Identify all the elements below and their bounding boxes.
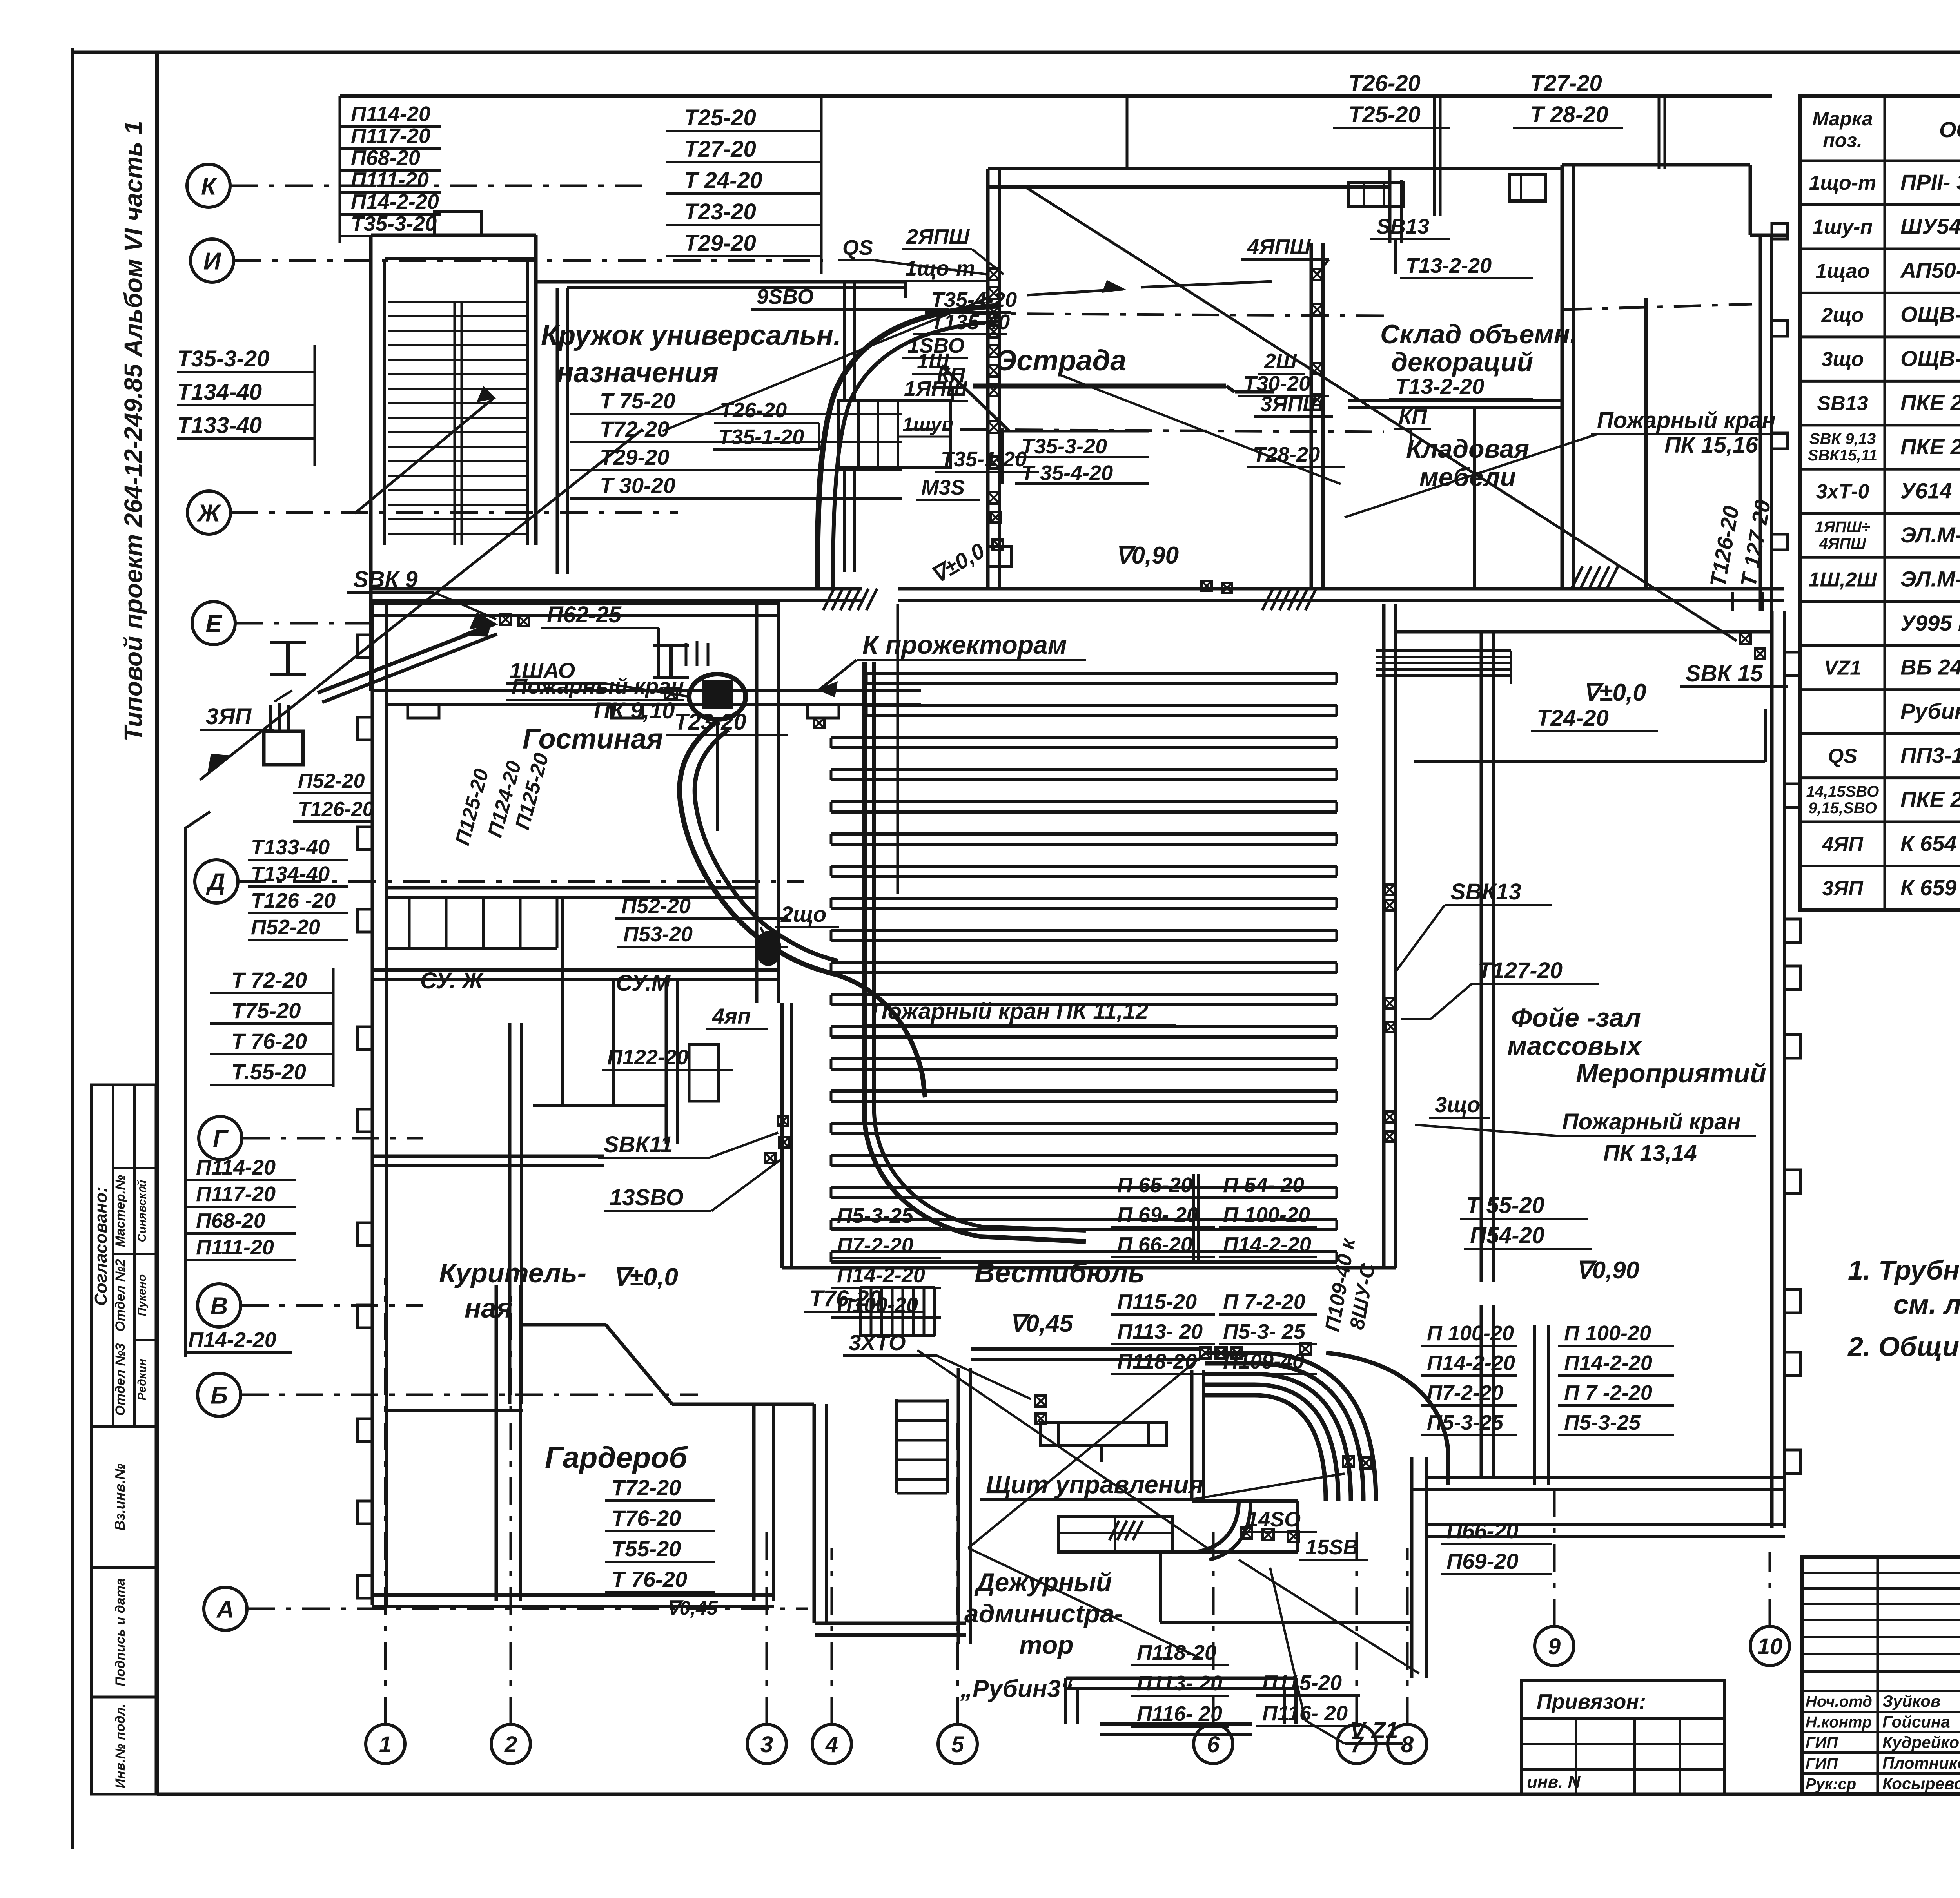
svg-text:Т26-20: Т26-20 [1348,71,1421,96]
svg-text:Т25-20: Т25-20 [1348,102,1421,127]
svg-text:П 100-20: П 100-20 [1223,1203,1310,1227]
svg-text:Т25-20: Т25-20 [684,105,756,131]
svg-text:Т134-40: Т134-40 [251,862,330,886]
corridor wall above administrator area [971,1347,1200,1351]
axis 4 circle [812,1724,851,1764]
foyer bottom wall [1427,1476,1785,1479]
hall right wall [1382,604,1386,1268]
svg-text:1шу-п: 1шу-п [1813,216,1873,239]
svg-text:3ЯПШ: 3ЯПШ [1260,392,1324,416]
stage apron thick edge line [973,384,1226,389]
axis 10 dash-dot line [1769,1552,1771,1626]
svg-text:Т26-20: Т26-20 [720,399,787,422]
svg-text:Фойе -зал: Фойе -зал [1511,1003,1641,1033]
administrator area right wall [1410,1457,1414,1678]
svg-text:3що: 3що [1435,1092,1480,1117]
svg-text:см. лист-24,25.: см. лист-24,25. [1893,1289,1960,1320]
title block signature rows [1802,1690,1960,1692]
knot outer sweep to foyer [1326,1353,1448,1485]
svg-text:П53-20: П53-20 [623,923,693,946]
svg-text:Эстрада: Эстрада [996,344,1126,377]
svg-text:Т 30-20: Т 30-20 [600,473,675,498]
svg-text:П113- 20: П113- 20 [1137,1671,1222,1695]
svg-text:Т133-40: Т133-40 [177,413,262,438]
svg-text:Зуйков: Зуйков [1882,1692,1940,1710]
stage front equipment symbols [988,268,1000,280]
svg-text:П 66-20: П 66-20 [1117,1233,1192,1256]
кладовая inner wall [1473,408,1476,589]
svg-text:П113- 20: П113- 20 [1117,1320,1203,1343]
svg-text:Синявскიй: Синявскიй [136,1180,149,1242]
conduit vertical through hall [897,604,899,894]
svg-text:П 7 -2-20: П 7 -2-20 [1564,1381,1652,1405]
svg-text:ПКЕ 212-2: ПКЕ 212-2 [1900,390,1960,415]
svg-text:П117-20: П117-20 [196,1182,276,1206]
stack vertical under Т26/Т25 [1433,96,1436,216]
svg-text:Т 76-20: Т 76-20 [612,1567,687,1592]
svg-text:1шуп: 1шуп [902,413,954,435]
svg-text:Т35-3-20: Т35-3-20 [351,212,437,236]
svg-text:VZ1: VZ1 [1824,656,1861,679]
svg-text:Т13-2-20: Т13-2-20 [1406,254,1492,277]
axis 6 dash-dot line [1212,1528,1215,1724]
svg-text:Ноч.отд: Ноч.отд [1806,1693,1872,1710]
equipment склад top [1222,583,1232,593]
axis Е circle [192,602,235,645]
title block signature column lines [1877,1557,1879,1794]
svg-text:П 65-20: П 65-20 [1117,1173,1192,1197]
svg-text:П52-20: П52-20 [298,770,365,792]
svg-text:Т30-20: Т30-20 [1243,372,1310,395]
counter rectangle 2 in vestibule [1058,1517,1172,1552]
svg-text:Т35-4-20: Т35-4-20 [931,288,1017,312]
svg-text:Т72-20: Т72-20 [612,1475,681,1500]
svg-text:Т29-20: Т29-20 [684,230,756,256]
svg-text:П69-20: П69-20 [1446,1549,1519,1574]
svg-text:3ХТО: 3ХТО [849,1330,906,1355]
drawing frame border [155,52,159,1794]
svg-text:декораций: декораций [1391,347,1533,377]
svg-text:П52-20: П52-20 [621,894,691,918]
axis 2 circle [491,1724,530,1764]
svg-text:∇0,90: ∇0,90 [1576,1257,1639,1284]
axis 3 circle [747,1724,786,1764]
left stack collector line [314,345,316,466]
cable knot bundle bottom centre [1205,1353,1376,1501]
axis 5 circle [938,1724,977,1764]
left callout collector line [185,812,210,1357]
svg-text:ОЩВ-6: ОЩВ-6 [1900,346,1960,371]
svg-text:В: В [211,1293,228,1320]
svg-text:ГИП: ГИП [1806,1734,1838,1751]
svg-text:П66-20: П66-20 [1446,1518,1519,1543]
svg-text:Т133-40: Т133-40 [251,836,330,859]
svg-text:3ЯП: 3ЯП [1822,877,1864,900]
axis Б circle [198,1373,241,1416]
svg-text:инв. N: инв. N [1527,1773,1581,1792]
svg-text:П116- 20: П116- 20 [1262,1702,1348,1725]
svg-text:Г: Г [213,1125,229,1152]
svg-text:П114-20: П114-20 [351,102,430,126]
svg-text:SВК15,11: SВК15,11 [1808,447,1877,464]
foyer top wall [1396,630,1772,634]
svg-text:ВБ 24/3: ВБ 24/3 [1900,654,1960,679]
hatch marks on cross wall [823,589,834,610]
stair entrance bump [434,212,481,235]
svg-text:П111-20: П111-20 [351,168,429,192]
cloakroom (Гардероб) walls [495,1285,498,1601]
stair treads [388,301,527,303]
vestibule entrance wall [815,1622,966,1625]
svg-text:поз.: поз. [1823,129,1862,151]
svg-text:П68-20: П68-20 [351,146,420,170]
svg-text:ШУ5402-03В2Б: ШУ5402-03В2Б [1900,214,1960,239]
svg-text:Кудрейко: Кудрейко [1882,1733,1959,1751]
foyer right facade [1770,611,1774,1528]
hall left aisle cable [864,662,1086,1242]
svg-text:П118-20: П118-20 [1137,1641,1216,1664]
svg-text:Гостиная: Гостиная [523,723,663,755]
administrator room wall [1190,1370,1194,1501]
knot equipment marks [1200,1347,1211,1358]
toilets walls axis Г [372,968,778,972]
svg-text:Гойсина: Гойсина [1882,1713,1950,1731]
axis В circle [198,1284,241,1327]
axis 1 circle [366,1724,405,1764]
svg-text:Отдел №3: Отдел №3 [113,1343,128,1416]
svg-text:Т 76-20: Т 76-20 [231,1029,307,1053]
svg-text:Т 35-4-20: Т 35-4-20 [1021,461,1113,485]
svg-text:SВК11: SВК11 [604,1132,673,1157]
stage axis dash-dot lines [972,314,1384,316]
svg-text:Кладовая: Кладовая [1406,434,1529,463]
long leader lines right of Т35-4-20 [1027,289,1123,295]
svg-text:3що: 3що [1821,348,1864,371]
svg-text:ная: ная [465,1293,512,1323]
axis 10 circle [1750,1626,1789,1666]
svg-text:∇0,45: ∇0,45 [1009,1310,1074,1337]
svg-text:Согласовано:: Согласовано: [91,1187,111,1306]
svg-text:Рубин3: Рубин3 [1900,699,1960,723]
auditorium seat rows [866,672,1337,675]
svg-text:ГИП: ГИП [1806,1755,1838,1772]
stack vertical under Т27/Т28 right [1658,96,1661,169]
svg-text:3ЯП: 3ЯП [206,704,252,729]
svg-text:ПКЕ 222-1: ПКЕ 222-1 [1900,434,1960,459]
stair block right wall [526,259,529,545]
axis А dash-dot line [247,1608,808,1610]
svg-text:У614: У614 [1900,479,1952,503]
svg-text:П7-2-20: П7-2-20 [837,1234,913,1257]
svg-text:Т55-20: Т55-20 [612,1536,681,1561]
svg-text:П109-40: П109-40 [1223,1350,1304,1373]
equipment on axis И stage side [814,718,824,728]
axis 7 dash-dot line [1356,1528,1358,1724]
stair arrow diagonal [355,398,494,513]
axis 8 dash-dot line [1406,1548,1409,1724]
stairwell outer walls top-left [371,234,536,237]
svg-text:массовых: массовых [1507,1031,1642,1061]
section mark I centre [669,646,673,677]
left stamp table [91,1085,156,1794]
svg-text:4ЯПШ: 4ЯПШ [1247,235,1311,259]
svg-text:Гардероб: Гардероб [545,1441,688,1474]
lower right wall band [1427,1523,1785,1526]
foyer riser pipes vertical [1533,1325,1536,1485]
svg-text:П5-3-25: П5-3-25 [1564,1411,1641,1434]
svg-text:П5-3- 25: П5-3- 25 [1223,1320,1306,1343]
svg-text:Мероприятий: Мероприятий [1576,1059,1766,1088]
stage front wall [986,169,990,589]
svg-text:Косырево: Косырево [1882,1774,1960,1793]
svg-text:SВК13: SВК13 [1450,879,1521,905]
svg-text:9: 9 [1548,1634,1561,1659]
кладовая east inner wall [1644,298,1648,589]
svg-text:П7-2-20: П7-2-20 [1427,1381,1503,1405]
smoking room walls [372,1155,604,1158]
wing wall pilasters [408,704,439,718]
axis 4 dash-dot line [831,1548,833,1724]
svg-text:П14-2-20: П14-2-20 [1223,1233,1311,1256]
svg-text:К прожекторам: К прожекторам [862,630,1067,659]
svg-text:Т76-20: Т76-20 [612,1506,681,1530]
axis И circle [191,239,234,282]
right facade upper [1759,235,1762,611]
svg-text:П14-2-20: П14-2-20 [1427,1351,1515,1375]
svg-text:1ЯПШ÷: 1ЯПШ÷ [1815,518,1870,536]
stage leader diagonal [942,366,1009,431]
top-right outer wall [1562,163,1750,167]
svg-text:Т35-1-20: Т35-1-20 [718,425,804,449]
svg-text:П117-20: П117-20 [351,124,430,148]
svg-text:2. Общие указония см.лист-2: 2. Общие указония см.лист-2 [1847,1331,1960,1362]
svg-text:ЭЛ.М- 13.000СБ: ЭЛ.М- 13.000СБ [1900,566,1960,591]
svg-text:П54-20: П54-20 [1470,1223,1544,1248]
svg-text:Т 75-20: Т 75-20 [600,388,675,413]
top plan boundary wall [340,94,1772,98]
svg-text:Т 72-20: Т 72-20 [231,968,307,992]
svg-text:Пукено: Пукено [136,1274,149,1316]
svg-text:К: К [201,173,218,200]
svg-text:Куритель-: Куритель- [439,1258,586,1288]
svg-text:Т29-20: Т29-20 [600,445,669,470]
hall left wall equipment [778,1116,788,1126]
svg-text:∇0,45: ∇0,45 [666,1597,718,1619]
svg-text:SВ13: SВ13 [1376,215,1429,238]
svg-text:Мастер.№: Мастер.№ [113,1175,128,1247]
club room west wall segments [843,282,846,400]
svg-text:1що-т: 1що-т [1809,172,1877,194]
axis Ж circle [187,491,230,534]
storeroom wall between stage and склад [1310,243,1313,589]
vertical under Т26 stack centre [1126,96,1129,169]
svg-text:Плотникова: Плотникова [1882,1754,1960,1772]
привязан table [1522,1680,1725,1794]
svg-text:П62-25: П62-25 [547,602,622,627]
svg-text:∇±0,0: ∇±0,0 [1583,679,1646,706]
administrator desk walls [1192,1499,1298,1503]
svg-text:И: И [203,248,221,275]
equipment small at stage front lower [991,512,1001,522]
svg-text:П100-20: П100-20 [837,1293,918,1317]
SBK9 equipment [500,614,511,625]
svg-text:SВ13: SВ13 [1817,392,1868,415]
vestibule left wall [957,1368,960,1644]
club room (Кружок) walls [536,280,906,284]
svg-text:П114-20: П114-20 [196,1156,276,1179]
stack Т72 collector vertical [332,968,335,1087]
svg-text:Т127-20: Т127-20 [1478,958,1563,983]
svg-text:Т.55-20: Т.55-20 [231,1059,306,1084]
equipment left of blob [665,688,677,700]
svg-text:SВК 9: SВК 9 [353,567,418,592]
svg-text:П 100-20: П 100-20 [1427,1322,1514,1345]
svg-text:админисtра-: админисtра- [964,1599,1123,1628]
svg-text:Пожарный кран: Пожарный кран [1562,1109,1741,1135]
svg-text:П115-20: П115-20 [1262,1671,1342,1695]
склад equipment marks [1312,269,1323,280]
svg-text:Пожарный кран: Пожарный кран [1597,408,1776,433]
axis Д circle [195,860,238,903]
svg-text:Б: Б [211,1382,228,1409]
svg-text:П14-2-20: П14-2-20 [351,190,439,214]
hall bottom wall [782,1266,1396,1270]
svg-text:П14-2-20: П14-2-20 [1564,1351,1652,1375]
hall right wall equipment [1385,885,1395,895]
foyer facade pilasters [1785,652,1800,676]
cable branch into hall [835,974,925,1097]
svg-text:М3S: М3S [921,476,965,499]
svg-text:Т35-3-20: Т35-3-20 [177,346,269,372]
svg-text:2ЯПШ: 2ЯПШ [906,225,970,248]
boxed Т35-3-20 / Т35-4-20 labels [1002,431,1149,484]
1ШУП box [839,401,951,467]
svg-text:ПК 13,14: ПК 13,14 [1603,1140,1697,1166]
svg-text:4ЯП: 4ЯП [1822,833,1864,856]
склад/кладовая partition wall [1348,399,1562,402]
svg-text:Т24-20: Т24-20 [1537,705,1609,731]
axis 1 dash-dot line [384,1278,387,1724]
svg-text:SВК 9,13: SВК 9,13 [1809,430,1876,448]
svg-text:14SО: 14SО [1247,1508,1301,1531]
svg-text:Т27-20: Т27-20 [1530,71,1602,96]
svg-text:1Ш,2Ш: 1Ш,2Ш [1808,568,1877,591]
lower centre portico walls [1066,1677,1296,1680]
svg-text:Т23-20: Т23-20 [674,709,746,735]
svg-text:Рук:ср: Рук:ср [1806,1775,1856,1793]
axis Б dash-dot line [241,1394,698,1396]
svg-text:2Ш: 2Ш [1264,350,1297,373]
svg-text:Пожарный кран: Пожарный кран [512,674,684,698]
svg-text:КП: КП [1399,405,1427,428]
equipment schedule table [1800,96,1960,910]
svg-text:10: 10 [1757,1634,1783,1659]
svg-text:∇±0,0: ∇±0,0 [613,1263,678,1291]
svg-text:П111-20: П111-20 [196,1236,274,1259]
svg-text:1. Трубно-кабельный журнал: 1. Трубно-кабельный журнал [1848,1255,1960,1285]
bottom long diagonals [917,1350,1207,1548]
svg-text:∇0,90: ∇0,90 [1115,542,1179,569]
svg-text:3: 3 [760,1732,773,1757]
vestibule west wall [813,1404,816,1623]
svg-text:А: А [216,1596,234,1623]
svg-text:1: 1 [379,1732,392,1757]
svg-text:V Z1: V Z1 [1350,1718,1398,1743]
collector verticals between centre stacks [1192,1174,1195,1262]
axis 8 circle [1388,1724,1427,1764]
right facade upper pilasters [1772,223,1788,239]
svg-text:ПП3-100/Н2У356: ПП3-100/Н2У356 [1900,743,1960,767]
svg-text:тор: тор [1019,1630,1073,1659]
svg-text:Обозночение: Обозночение [1939,117,1960,142]
svg-text:13SВО: 13SВО [610,1185,684,1210]
svg-text:Т35-1-20: Т35-1-20 [941,448,1027,471]
svg-text:Вз.инв.№: Вз.инв.№ [112,1463,128,1530]
кладовая right wall [1561,165,1564,589]
svg-text:Редкин: Редкин [136,1359,149,1401]
гостиная bottom wall and closets [386,886,757,890]
svg-text:ЭЛ.М-06.000СБ: ЭЛ.М-06.000СБ [1900,522,1960,547]
svg-text:Типовой проект 264-12-249.85: Типовой проект 264-12-249.85 Альбом VI ч… [119,121,147,741]
foyer equipment marks [1385,998,1395,1008]
axis 7 circle [1337,1724,1376,1764]
svg-text:П5-3-25: П5-3-25 [837,1204,914,1227]
axis 3 dash-dot line [766,1528,768,1724]
svg-text:П 54- 20: П 54- 20 [1223,1173,1304,1197]
title block main outline [1802,1557,1960,1794]
svg-text:АП50-3МТ: АП50-3МТ [1900,258,1960,283]
svg-text:Т126-20: Т126-20 [298,798,374,821]
long diagonal leaders across stage [1027,188,1737,641]
axis К circle [187,164,230,207]
svg-text:Вестибюль: Вестибюль [975,1257,1145,1289]
svg-text:Ж: Ж [196,500,221,527]
svg-text:4: 4 [825,1732,838,1757]
svg-text:ПКЕ 212-2У3: ПКЕ 212-2У3 [1900,787,1960,812]
svg-text:П122-20: П122-20 [607,1046,688,1069]
foyer left wall [1480,632,1483,1282]
svg-text:П 69- 20: П 69- 20 [1117,1203,1198,1227]
svg-text:Т126 -20: Т126 -20 [251,889,336,912]
svg-text:Т134-40: Т134-40 [177,379,262,405]
svg-text:SВК 15: SВК 15 [1686,661,1763,686]
svg-text:QS: QS [1828,745,1857,767]
foyer pipes top [1376,649,1511,652]
hatched strip bottom [1109,1521,1119,1540]
title block thin rows upper [1802,1572,1960,1574]
1ЩАО panel dark blob [689,674,746,720]
upper-left wing bottom wall on axis Ж [369,545,373,691]
stack vertical left [339,96,341,243]
svg-text:П52-20: П52-20 [251,915,320,939]
svg-text:Т75-20: Т75-20 [231,998,301,1023]
axis Е dash-dot line [236,622,370,625]
stage top double wall line [988,185,1390,189]
axis 6 circle [1194,1724,1233,1764]
svg-text:К 654 ГЭМ: К 654 ГЭМ [1900,831,1960,856]
svg-text:Кружок универсальн.: Кружок универсальн. [541,320,841,351]
svg-text:4ЯПШ: 4ЯПШ [1819,535,1866,552]
svg-text:назначения: назначения [557,357,719,388]
svg-text:П116- 20: П116- 20 [1137,1702,1222,1726]
svg-text:Т35-3-20: Т35-3-20 [1021,435,1107,458]
svg-text:ОЩВ-6: ОЩВ-6 [1900,302,1960,327]
svg-text:П68-20: П68-20 [196,1209,265,1233]
axis 9 circle [1535,1626,1574,1666]
svg-text:5: 5 [951,1732,964,1757]
svg-text:Н.контр: Н.контр [1806,1714,1872,1731]
склад top wall [1352,167,1562,170]
